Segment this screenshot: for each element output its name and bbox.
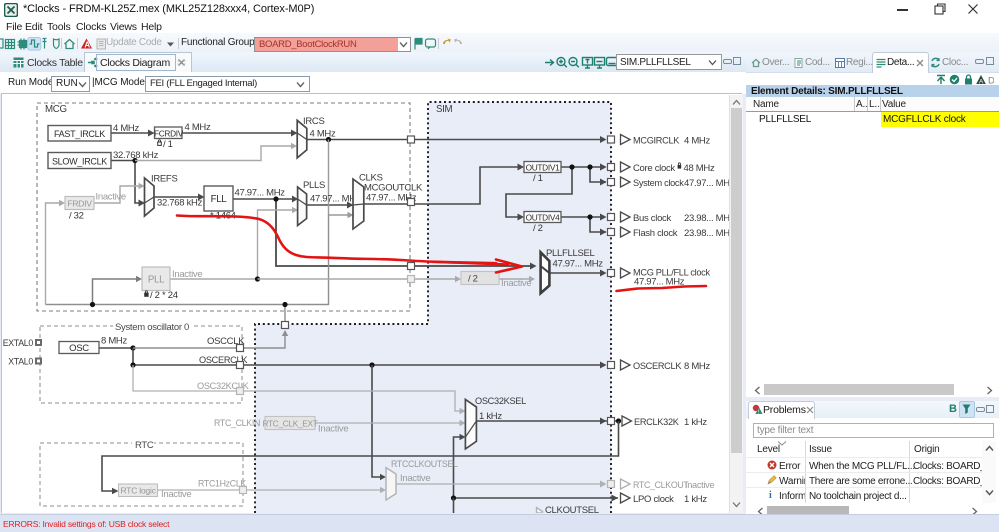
tab row <box>0 52 999 73</box>
svg-text:FAST_IRCLK: FAST_IRCLK <box>54 129 105 139</box>
wire IREFS to FLL <box>154 194 205 201</box>
wire PLLFLLSEL output <box>549 272 604 274</box>
junction OUTDIV4 out <box>587 214 592 219</box>
svg-text:1 kHz: 1 kHz <box>684 417 707 428</box>
output Bus clock <box>600 212 730 224</box>
output RTC_CLKOUT (inactive) <box>600 479 714 490</box>
mux PLLFLLSEL <box>541 252 550 293</box>
wire LPO clock output <box>454 497 619 499</box>
svg-text:/ 1: / 1 <box>163 139 173 150</box>
wire PLL input riser <box>93 276 143 305</box>
svg-text:Inactive: Inactive <box>685 480 714 490</box>
svg-text:PLL: PLL <box>148 275 165 286</box>
svg-text:XTAL0: XTAL0 <box>8 357 33 367</box>
PLLS labels <box>303 180 356 205</box>
red annotation main stroke <box>177 216 706 292</box>
junction OSC out <box>130 345 135 350</box>
System oscillator 0 region dashed border <box>40 321 242 403</box>
FRDIV labels <box>69 192 126 222</box>
wire OSCERCLK <box>133 348 604 365</box>
svg-text:RTC logic: RTC logic <box>120 486 156 496</box>
connector MCG border MCGFLLCLK <box>408 263 415 270</box>
svg-text:FLL: FLL <box>211 194 228 205</box>
node SIM label <box>436 104 453 115</box>
svg-text:4 MHz: 4 MHz <box>113 123 139 134</box>
svg-text:Core clock: Core clock <box>633 163 675 174</box>
wire ERCLK32K to RTC logic <box>102 421 619 494</box>
FCRDIV value lock / 1 <box>158 139 173 150</box>
RTC region dashed border <box>40 439 243 506</box>
wire RTCCLKOUTSEL output RTC_CLKOUT (inactive) <box>396 483 604 485</box>
svg-text:4 MHz: 4 MHz <box>310 129 336 140</box>
svg-text:RTC_CLKIN: RTC_CLKIN <box>214 418 260 428</box>
svg-text:System clock: System clock <box>633 178 684 188</box>
output LPO clock <box>612 493 708 505</box>
connector MCG border MCGOUTCLK <box>408 199 415 206</box>
label FCRDIV 4 MHz <box>185 122 211 133</box>
svg-text:EXTAL0: EXTAL0 <box>3 338 34 348</box>
svg-text:1 kHz: 1 kHz <box>479 411 502 422</box>
wire OUTDIV1 to OUTDIV4 <box>506 167 572 221</box>
problems v-scrollbar <box>982 441 996 503</box>
svg-text:/ 1: / 1 <box>533 173 543 184</box>
node RTC1HzCLK label <box>198 479 246 489</box>
svg-text:/ 2: / 2 <box>468 274 478 285</box>
svg-text:Inactive: Inactive <box>161 489 191 500</box>
block OSC <box>59 342 99 355</box>
svg-text:MCGIRCLK: MCGIRCLK <box>633 136 680 146</box>
mux CLKOUTSEL tip <box>537 508 543 514</box>
svg-text:23.98... MH: 23.98... MH <box>684 228 730 239</box>
PLLFLLSEL labels <box>546 248 603 270</box>
IREFS labels <box>151 174 203 209</box>
svg-text:8 MHz: 8 MHz <box>684 361 710 372</box>
svg-text:47.97... MHz: 47.97... MHz <box>553 259 604 270</box>
wire OSCERCLK to RTCCLKOUTSEL input 0 <box>372 365 386 480</box>
label SLOW_IRCLK 32.768 kHz <box>113 150 159 161</box>
block SLOW_IRCLK <box>48 153 111 169</box>
labels FAST_IRCLK 4 MHz <box>113 123 139 134</box>
details h-scrollbar <box>746 383 999 397</box>
wire RTC1HzCLK (inactive) <box>157 487 386 493</box>
svg-text:A: A <box>979 78 984 85</box>
divider /2 SIM (inactive) <box>461 272 499 285</box>
block RTC_CLK_EXT (inactive) <box>262 417 317 430</box>
svg-text:Flash clock: Flash clock <box>633 228 678 239</box>
junction OSCCLK feedback <box>282 302 287 307</box>
output Flash clock <box>600 227 730 239</box>
pin EXTAL0 <box>3 338 42 348</box>
connector OSCCLK to MCG <box>282 322 289 329</box>
svg-text:Inactive: Inactive <box>96 192 126 203</box>
mux IRCS <box>297 120 307 158</box>
svg-text:FCRDIV: FCRDIV <box>154 129 184 139</box>
IRCS labels <box>303 116 336 140</box>
details table header <box>746 97 999 112</box>
block FAST_IRCLK <box>48 126 111 142</box>
FLL value * 1464 <box>210 211 236 222</box>
svg-text:47.97... MH: 47.97... MH <box>310 194 356 205</box>
pin XTAL0 <box>8 357 42 367</box>
svg-text:Inactive: Inactive <box>501 278 531 289</box>
svg-text:RTC_CLK_EXT: RTC_CLK_EXT <box>262 419 317 429</box>
wire LPO to OSC32KSEL input 2 <box>454 434 466 498</box>
PLL labels <box>145 269 203 301</box>
svg-text:RTC_CLKOUT: RTC_CLKOUT <box>633 480 689 490</box>
details row PLLFLLSEL <box>746 112 999 127</box>
mux CLKS <box>353 179 364 229</box>
RTC_CLK_EXT inactive label <box>318 424 348 435</box>
wire OSCCLK rise to MCG <box>240 305 288 349</box>
junction on FLL output <box>273 196 278 201</box>
svg-text:32.768 kHz: 32.768 kHz <box>157 198 203 209</box>
DIAGRAM CANVAS <box>1 93 742 513</box>
svg-text:A: A <box>84 40 90 49</box>
junction OUTDIV1 out b <box>587 164 592 169</box>
output ERCLK32K <box>600 416 707 428</box>
CLKS labels <box>359 173 423 204</box>
wire SLOW_IRCLK output <box>111 161 145 207</box>
svg-text:IRCS: IRCS <box>303 116 325 127</box>
connector OSCERCLK <box>237 362 244 369</box>
zoom toolbar <box>543 55 618 70</box>
svg-text:FRDIV: FRDIV <box>67 199 92 209</box>
run mode row <box>0 72 999 94</box>
svg-text:LPO clock: LPO clock <box>633 494 674 505</box>
svg-text:OSC32KSEL: OSC32KSEL <box>475 396 526 406</box>
divider OUTDIV4 <box>524 212 561 223</box>
output Core clock <box>600 162 715 174</box>
svg-text:D: D <box>988 76 994 86</box>
wire OSCCLK to connector <box>133 347 240 349</box>
junction PLL output <box>255 276 260 281</box>
SIM region fill <box>255 102 611 513</box>
connector OSC32KCLK (inactive) <box>237 388 244 395</box>
wire OSC output <box>99 347 133 349</box>
wire FLL output to PLLS input 0 <box>233 196 298 203</box>
wire CLKS output MCGOUTCLK to OUTDIV1 <box>364 164 524 205</box>
mux RTCCLKOUTSEL (inactive) <box>386 468 396 500</box>
svg-text:32.768 kHz: 32.768 kHz <box>113 150 159 161</box>
mux IREFS <box>145 178 155 216</box>
svg-text:System oscillator 0: System oscillator 0 <box>115 322 189 333</box>
MCG region dashed border <box>37 103 410 311</box>
wire PLL output to PLLS input 1 (inactive) <box>170 207 298 279</box>
svg-text:Inactive: Inactive <box>318 424 348 435</box>
junction on MCGIRCLK wire <box>326 137 331 142</box>
OUTDIV1 value <box>533 173 543 184</box>
/2 inactive label <box>501 278 531 289</box>
wire FRDIV input riser (inactive) <box>46 200 66 305</box>
svg-text:PLLS: PLLS <box>303 180 325 191</box>
divider OUTDIV1 <box>524 162 561 173</box>
svg-text:SLOW_IRCLK: SLOW_IRCLK <box>52 157 107 167</box>
canvas vertical scrollbar <box>729 95 743 513</box>
svg-text:PLLFLLSEL: PLLFLLSEL <box>546 248 595 259</box>
status bar <box>0 514 999 532</box>
output System clock <box>600 177 730 189</box>
output OSCERCLK <box>600 360 710 372</box>
output MCG PLL/FLL clock <box>600 268 710 288</box>
label FLL 47.97 MHz <box>235 188 286 199</box>
junction ERCLK32K <box>616 418 621 423</box>
wire /2 to PLLFLLSEL input 1 (inactive) <box>499 276 535 282</box>
junction PLL riser <box>90 302 95 307</box>
junction LPO <box>451 495 456 500</box>
svg-text:MCG: MCG <box>45 104 67 115</box>
wire SLOW_IRCLK to IRCS input 1 (inactive) <box>135 143 297 161</box>
svg-text:4 MHz: 4 MHz <box>684 136 710 147</box>
problems panel <box>746 401 999 517</box>
CLKOUTSEL label <box>545 505 599 516</box>
mux PLLS <box>298 187 307 226</box>
panel icon row <box>746 73 999 85</box>
svg-text:OUTDIV4: OUTDIV4 <box>526 213 561 223</box>
wire MCGFLLCLK to PLLFLLSEL input 0 <box>276 199 537 270</box>
problems h-scrollbar <box>746 505 999 517</box>
node OSC32KCLK label <box>197 381 250 391</box>
block FLL <box>204 186 233 211</box>
OUTDIV4 value <box>533 223 543 234</box>
wire Flash clock branch <box>590 217 606 232</box>
svg-text:SIM: SIM <box>436 104 453 115</box>
svg-text:23.98... MH: 23.98... MH <box>684 213 730 224</box>
svg-text:48 MHz: 48 MHz <box>684 163 715 174</box>
node MCG label <box>45 104 67 115</box>
junction OUTDIV1 out a <box>569 164 574 169</box>
wire PLLS to CLKS input 0 <box>307 202 354 209</box>
panel tab row <box>746 52 999 73</box>
svg-text:RTC: RTC <box>135 440 154 451</box>
svg-text:4 MHz: 4 MHz <box>185 122 211 133</box>
connector OSCCLK <box>237 345 244 352</box>
node OSCERCLK label <box>199 355 248 365</box>
RTCCLKOUTSEL labels <box>391 459 458 484</box>
wire PLL output to SIM /2 (inactive) <box>258 276 462 282</box>
wire System clock branch <box>590 167 606 182</box>
svg-text:/ 2: / 2 <box>533 223 543 234</box>
connector RTC1HzCLK (inactive) <box>240 487 247 494</box>
svg-text:OSCERCLK: OSCERCLK <box>633 361 682 371</box>
wire OSC32KSEL output ERCLK32K <box>476 420 618 422</box>
svg-text:IREFS: IREFS <box>151 174 177 185</box>
svg-text:OUTDIV1: OUTDIV1 <box>526 163 561 173</box>
RIGHT PANEL <box>746 52 999 517</box>
svg-text:ERCLK32K: ERCLK32K <box>634 417 680 427</box>
wire OUTDIV1 output Core clock <box>561 164 607 171</box>
title bar <box>0 0 999 19</box>
element details header <box>746 85 999 97</box>
junction SLOW_IRCLK out <box>132 158 137 163</box>
RTC logic inactive label <box>161 489 191 500</box>
wire LPO down to CLKOUTSEL <box>453 498 455 513</box>
svg-text:RTCCLKOUTSEL: RTCCLKOUTSEL <box>391 459 458 469</box>
divider FRDIV (inactive) <box>65 197 94 210</box>
divider FCRDIV <box>154 127 184 139</box>
wire OUTDIV4 output Bus clock <box>561 216 604 218</box>
wire FRDIV to IREFS input 0 (inactive) <box>94 183 145 203</box>
node OSCCLK label <box>207 336 245 347</box>
connector MCG border PLL path (inactive) <box>408 276 415 283</box>
svg-text:OSC: OSC <box>69 343 89 354</box>
svg-text:CLKOUTSEL: CLKOUTSEL <box>545 505 599 513</box>
wire FAST_IRCLK to FCRDIV <box>111 130 155 137</box>
svg-text:Bus clock: Bus clock <box>633 213 672 224</box>
wire FCRDIV to IRCS input 0 <box>182 130 298 137</box>
node RTC_CLKIN label <box>214 418 260 428</box>
svg-text:47.97... MH: 47.97... MH <box>684 178 730 189</box>
wire OSCCLK feedback across MCG bottom <box>46 215 329 305</box>
wire OSC32KCLK (inactive) <box>133 365 466 414</box>
SIM region dotted border <box>255 102 611 513</box>
wire internal reference down to CLKS input 1 <box>329 140 354 219</box>
svg-text:Inactive: Inactive <box>172 269 202 280</box>
menu bar <box>0 19 999 33</box>
svg-text:1 kHz: 1 kHz <box>684 494 707 505</box>
svg-text:8 MHz: 8 MHz <box>101 336 127 347</box>
junction OSCERCLK b <box>369 362 374 367</box>
connector MCG border MCGIRCLK <box>408 136 415 143</box>
wire RTC_CLK_EXT to OSC32KSEL input 1 (inactive) <box>315 420 466 426</box>
wire IRCS output MCGIRCLK across SIM <box>307 136 607 143</box>
OSC32KSEL labels <box>475 396 526 422</box>
OSC label 8 MHz <box>101 336 127 347</box>
block PLL (inactive) <box>142 267 170 291</box>
block RTC logic (inactive) <box>119 484 158 497</box>
svg-text:Inactive: Inactive <box>400 473 430 484</box>
mux OSC32KSEL <box>465 399 476 449</box>
toolbar <box>0 33 999 53</box>
svg-text:/ 2 * 24: / 2 * 24 <box>150 290 178 301</box>
problems table <box>746 441 999 503</box>
junction OSCERCLK a <box>130 362 135 367</box>
svg-text:47.97... MHz: 47.97... MHz <box>235 188 286 199</box>
output MCGIRCLK <box>608 135 711 147</box>
svg-text:/ 32: / 32 <box>69 211 84 222</box>
